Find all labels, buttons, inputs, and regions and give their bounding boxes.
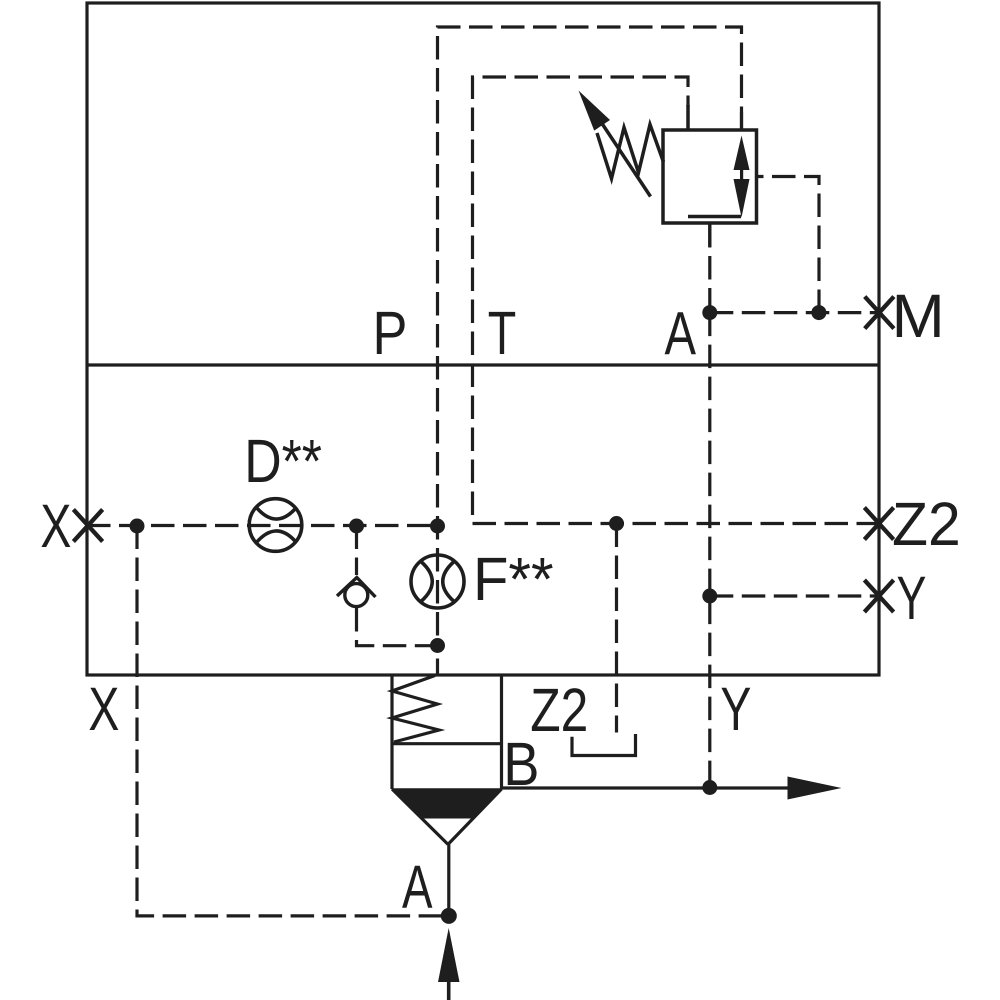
svg-text:Z2: Z2 [892, 490, 961, 558]
svg-text:A: A [402, 853, 433, 921]
svg-text:D**: D** [244, 427, 322, 495]
svg-text:F**: F** [473, 545, 554, 613]
svg-text:A: A [665, 300, 697, 368]
svg-text:M: M [892, 282, 945, 350]
svg-text:X: X [88, 675, 119, 743]
svg-text:P: P [373, 299, 408, 367]
svg-text:T: T [488, 299, 517, 367]
svg-text:B: B [503, 730, 539, 798]
svg-text:Y: Y [897, 564, 927, 632]
svg-text:Y: Y [720, 675, 751, 743]
svg-text:X: X [40, 492, 71, 560]
